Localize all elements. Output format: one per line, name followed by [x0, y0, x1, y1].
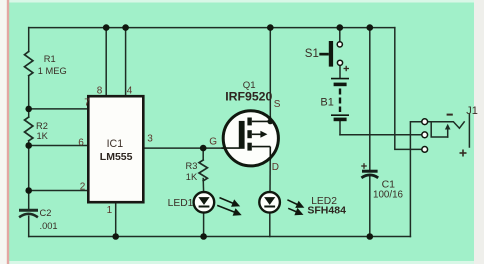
resistor R2 — [25, 117, 33, 141]
svg-text:SFH484: SFH484 — [307, 205, 346, 217]
svg-text:C2: C2 — [40, 208, 52, 218]
C1 plus mark — [361, 163, 367, 169]
wire: J1 tip contact line with notch — [428, 122, 465, 129]
svg-text:1K: 1K — [37, 131, 49, 141]
wire: pin 4 — [125, 28, 127, 96]
svg-text:3: 3 — [147, 134, 153, 145]
J1 plus mark — [460, 150, 467, 157]
svg-text:6: 6 — [78, 137, 84, 148]
svg-text:R2: R2 — [36, 121, 48, 131]
svg-text:S: S — [274, 99, 281, 110]
wire: R3 tap down — [202, 148, 204, 159]
svg-text:LM555: LM555 — [100, 151, 133, 163]
junction dot pin4/top bus — [122, 24, 129, 31]
capacitor C2 — [20, 210, 37, 216]
svg-text:2: 2 — [80, 181, 86, 192]
svg-text:B1: B1 — [320, 97, 333, 109]
svg-text:J1: J1 — [466, 105, 478, 117]
svg-text:D: D — [272, 162, 279, 173]
svg-text:100/16: 100/16 — [373, 190, 404, 201]
wire: S1 to battery — [339, 65, 341, 77]
LED2 body — [259, 192, 280, 213]
svg-text:4: 4 — [127, 86, 133, 97]
transistor Q1 channel top segment — [247, 118, 251, 126]
switch S1 top contact — [337, 42, 342, 47]
wire: left rail R2 to C2 — [28, 141, 30, 209]
svg-text:1K: 1K — [186, 172, 198, 182]
wire: left rail top corner to R1 — [28, 28, 30, 52]
svg-text:IRF9520: IRF9520 — [225, 90, 272, 104]
switch S1 bottom contact — [337, 60, 342, 65]
J1 minus mark — [447, 114, 453, 116]
wire: J1 switch arrow shaft — [447, 128, 449, 138]
wire: J1 right edge mark — [468, 115, 470, 148]
transistor Q1 source link — [252, 120, 270, 122]
junction dot C1/top bus — [367, 24, 374, 31]
junction dot R3 tap — [200, 145, 207, 152]
transistor Q1 body arrowhead — [260, 131, 267, 138]
wire: C2 to bottom bus — [28, 216, 30, 236]
LED1 triangle — [198, 197, 209, 205]
transistor Q1 channel middle segment — [247, 130, 251, 138]
LED2 emission arrow lower — [288, 208, 302, 214]
junction dot pin8/top bus — [103, 24, 110, 31]
resistor R3 — [199, 160, 207, 181]
svg-text:LED1: LED1 — [168, 198, 194, 209]
transistor Q1 body circle — [223, 111, 278, 166]
wire: gate lead inside Q1 — [222, 147, 240, 149]
LED1 emission arrow lower — [217, 205, 240, 215]
LED1 emission arrow upper — [220, 198, 239, 206]
wire: pin 8 — [105, 28, 107, 96]
junction dot source/top bus — [267, 24, 274, 31]
wire: R3 to LED1 — [202, 179, 204, 193]
svg-text:7: 7 — [84, 98, 90, 109]
IC U1 LM555 body — [88, 96, 143, 202]
switch S1 actuator stem — [319, 53, 329, 56]
junction dot pin2 node — [25, 187, 32, 194]
wire: C1 branch from top bus — [369, 28, 371, 170]
jack J1 top contact — [422, 119, 428, 125]
jack J1 middle contact — [422, 132, 428, 138]
junction dot Q1 source — [267, 119, 273, 125]
svg-text:S1: S1 — [305, 48, 319, 60]
battery plus mark — [344, 66, 350, 71]
wire: LED2 to bottom bus — [269, 213, 271, 237]
wire: LED1 to bottom bus — [203, 213, 205, 237]
LED2 emission arrow upper — [287, 200, 302, 207]
wire: source lead inside Q1 — [269, 117, 271, 123]
svg-text:1 MEG: 1 MEG — [38, 66, 67, 76]
svg-text:IC1: IC1 — [107, 138, 124, 150]
transistor Q1 gate bar — [239, 121, 245, 149]
junction dot LED1/bottom bus — [200, 233, 207, 240]
wire: source line from top bus — [269, 28, 271, 122]
wire: pin 6 — [29, 145, 89, 147]
wire: C1 to bottom bus — [369, 177, 371, 237]
wire: pin 7 — [29, 108, 89, 110]
svg-text:R3: R3 — [186, 161, 198, 171]
wire: pin 2 — [29, 190, 89, 192]
resistor R1 — [25, 52, 33, 76]
junction dot C1/bottom bus — [367, 233, 374, 240]
wire: top supply bus — [29, 27, 395, 29]
capacitor C1 — [361, 171, 378, 178]
LED1 body — [194, 192, 215, 213]
wire: J1 switch contact bracket — [431, 122, 448, 137]
svg-text:R1: R1 — [44, 54, 56, 64]
wire: battery minus down — [339, 121, 341, 134]
wire: bottom ground bus — [29, 236, 411, 238]
LED2 triangle — [264, 197, 275, 205]
wire: pin 1 — [115, 203, 117, 237]
junction dot pin6 node — [25, 142, 32, 149]
transistor Q1 drain link — [252, 146, 270, 148]
transistor Q1 channel bottom segment — [247, 143, 251, 151]
transistor Q1 body arrow shaft — [252, 133, 261, 135]
battery B1 — [331, 79, 349, 122]
junction dot pin7 node — [25, 106, 32, 113]
wire: J1 top contact to ground rail — [410, 122, 421, 237]
switch S1 actuator bar — [329, 41, 333, 67]
J1 switch arrowhead — [445, 124, 451, 130]
wire: supply feed to J1 bottom contact — [395, 28, 422, 150]
wire: pin 3 to gate — [144, 147, 240, 149]
svg-text:.001: .001 — [40, 221, 58, 231]
wire: battery to J1 middle contact — [340, 134, 422, 136]
junction dot S1/top bus — [337, 24, 344, 31]
svg-text:8: 8 — [97, 85, 103, 96]
wire: R1 to pin7 node — [28, 76, 30, 117]
LED1 cathode bar — [199, 206, 210, 208]
wire: drain lead inside Q1 — [269, 147, 271, 160]
svg-text:1: 1 — [107, 205, 113, 216]
wire: S1 branch from top bus — [339, 28, 341, 42]
wire: drain line to LED2 — [269, 147, 271, 192]
jack J1 bottom contact — [422, 147, 428, 153]
junction dot pin1/bottom bus — [112, 233, 119, 240]
svg-text:G: G — [209, 137, 217, 148]
LED2 cathode bar — [264, 206, 275, 208]
